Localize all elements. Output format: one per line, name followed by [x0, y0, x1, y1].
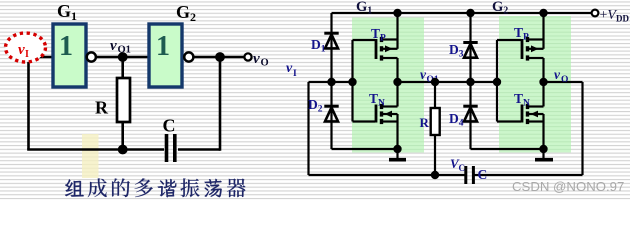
wire: D4 column	[469, 82, 471, 149]
svg-text:O: O	[261, 58, 269, 69]
junction R bottom	[431, 171, 439, 179]
junction vO	[215, 52, 225, 62]
G2 output bubble	[184, 52, 193, 61]
wire: G1 gate column	[351, 40, 353, 122]
transistor Tn1	[376, 104, 398, 124]
svg-text:v: v	[253, 51, 260, 67]
svg-text:I: I	[293, 69, 297, 79]
wire: Tp2 source to VDD rail	[542, 13, 544, 49]
G1 output bubble	[87, 52, 96, 61]
svg-text:v: v	[286, 61, 293, 76]
wire: G2 gate column	[496, 40, 498, 122]
svg-text:1: 1	[156, 31, 170, 62]
wire: Tn2 drain to vO	[542, 82, 544, 107]
svg-text:C: C	[163, 116, 176, 136]
junction R bottom	[118, 145, 128, 155]
svg-text:I: I	[25, 49, 29, 60]
wire: G2 output to vO terminal	[194, 56, 245, 59]
junction R top on vO1	[431, 78, 439, 86]
svg-text:v: v	[18, 42, 25, 58]
wire: D3 column from VDD rail	[469, 13, 471, 82]
junction Tp2 on VDD rail	[539, 9, 547, 17]
G2 transistor highlight box	[499, 16, 571, 153]
transistor Tn2	[522, 104, 544, 124]
ground G2	[535, 149, 553, 160]
svg-text:1: 1	[59, 31, 73, 62]
wire: bottom wire left of capacitor C	[27, 148, 164, 151]
caption text	[65, 178, 245, 197]
wire: Tn1 drain to vO1	[396, 82, 398, 107]
junction vO1 at G1 output	[393, 78, 401, 86]
wire: bottom wire right of capacitor C	[178, 148, 220, 151]
wire: Tp1 gate lead	[353, 39, 376, 41]
wire: right vertical vO down	[581, 82, 583, 175]
junction Tn2 source / ground	[539, 145, 547, 153]
junction Tn1 source / ground	[393, 145, 401, 153]
wire: vO1 line	[398, 81, 498, 83]
junction gate column on vI line	[348, 78, 356, 86]
wire: D2 anode to ground line G1	[332, 148, 398, 150]
node vI (red dashed ellipse)	[6, 33, 46, 62]
wire: vI input line	[309, 81, 353, 83]
junction vO1	[118, 52, 128, 62]
junction vO at G2 output	[539, 78, 547, 86]
yellow highlight strip	[82, 134, 99, 178]
resistor R	[117, 78, 130, 122]
capacitor C (right)	[466, 166, 474, 184]
diode D1	[324, 33, 338, 48]
svg-text:R: R	[95, 98, 109, 118]
svg-text:O: O	[561, 75, 568, 85]
svg-text:CSDN @NONO.97: CSDN @NONO.97	[512, 179, 624, 194]
wire: R down to bottom rail	[434, 135, 436, 175]
wire: D4 anode to ground line G2	[471, 148, 544, 150]
wire: Tn1 gate lead	[353, 120, 376, 122]
wire: vO line	[544, 81, 583, 83]
svg-text:v: v	[554, 67, 561, 82]
transistor Tp2	[522, 37, 544, 61]
ground G1	[389, 149, 406, 160]
diode D4	[463, 106, 477, 121]
wire: bottom rail right of C	[475, 174, 583, 176]
resistor R (right)	[431, 108, 440, 135]
wire: left feedback vertical	[27, 57, 30, 150]
G1 transistor highlight box	[352, 18, 424, 153]
inverter gate G2	[149, 24, 182, 87]
wire: right vertical from vO down	[219, 57, 222, 151]
wire: bottom rail left of C	[309, 174, 465, 176]
diode D3	[463, 43, 477, 58]
junction D3/D4 on vO1	[466, 78, 474, 86]
diode D2	[324, 106, 338, 121]
svg-text:R: R	[420, 115, 430, 130]
svg-text:C: C	[478, 167, 488, 182]
capacitor C	[167, 134, 175, 162]
wire: vI node to G1 input	[29, 56, 54, 59]
junction gate column on vO1	[493, 78, 501, 86]
svg-text:C: C	[459, 163, 466, 173]
svg-text:O1: O1	[118, 45, 131, 56]
inverter gate G1	[53, 24, 86, 87]
wire: resistor R down to bottom node	[121, 122, 124, 150]
wire: Tp2 gate lead	[497, 39, 521, 41]
junction Tp1 on VDD rail	[393, 9, 401, 17]
terminal vO	[244, 53, 251, 60]
wire: Tn2 source down	[542, 114, 544, 149]
terminal +VDD	[592, 10, 599, 17]
junction D1/D2 on vI line	[327, 78, 335, 86]
wire: D1 column from VDD rail	[330, 13, 332, 82]
wire: Tp1 drain to vO1	[396, 58, 398, 82]
junction D3 top	[466, 9, 474, 17]
wire: Tp2 drain to vO	[542, 58, 544, 82]
wire: G1 output to G2 input	[96, 56, 149, 59]
transistor Tp1	[376, 37, 398, 61]
svg-text:v: v	[110, 38, 117, 54]
wire: vO1 node down to resistor R	[121, 57, 124, 78]
wire: Tn1 source down	[396, 114, 398, 149]
wire: +VDD top rail	[332, 12, 593, 14]
wire: Tp1 source to VDD rail	[396, 13, 398, 49]
wire: vI vertical down	[307, 82, 309, 175]
wire: Tn2 gate lead	[497, 120, 521, 122]
wire: vO1 down to R	[434, 82, 436, 108]
wire: D2 column	[330, 82, 332, 149]
